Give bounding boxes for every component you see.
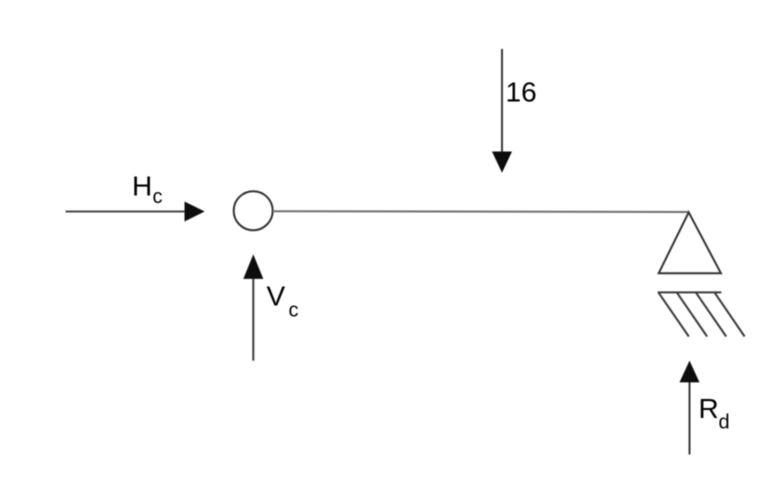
- hatching ground line: [658, 291, 722, 293]
- svg-text:d: d: [719, 412, 730, 434]
- hatch stroke 1: [658, 292, 688, 336]
- hatch stroke 4: [715, 292, 745, 336]
- beam wire from C to D: [273, 210, 689, 213]
- reaction arrow R_d head: [680, 361, 700, 383]
- reaction arrow R_d shaft: [689, 381, 691, 455]
- force arrow V_c head: [243, 254, 263, 279]
- svg-text:R: R: [699, 393, 719, 424]
- hatch stroke 3: [696, 292, 726, 336]
- force arrow H_c head: [185, 202, 205, 222]
- svg-text:c: c: [289, 300, 299, 322]
- roller support triangle at D: [659, 212, 721, 273]
- svg-text:16: 16: [506, 77, 537, 108]
- force arrow H_c shaft: [66, 211, 187, 213]
- force arrow V_c shaft: [252, 277, 254, 361]
- load arrow 16 shaft: [501, 49, 503, 153]
- svg-text:H: H: [132, 171, 152, 202]
- svg-text:c: c: [153, 186, 163, 208]
- load arrow 16 head: [492, 152, 512, 173]
- pin support circle at C: [234, 191, 273, 230]
- svg-text:V: V: [267, 281, 286, 312]
- hatch stroke 2: [677, 292, 707, 336]
